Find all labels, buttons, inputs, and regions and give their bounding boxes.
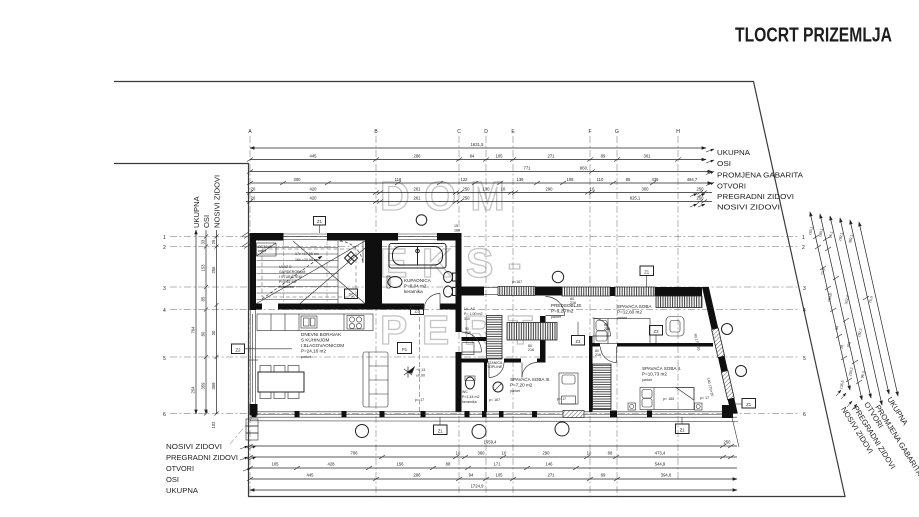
soba II bed [640,388,694,410]
rotated bottom labels of slanted band [839,395,919,478]
window: predsoblje hatched [498,287,535,296]
spavaca soba bed [594,319,650,344]
wall: WC / soba III divider [484,363,487,412]
dining table [258,372,304,392]
wall: top of WC / soba III [462,359,489,363]
soba III wardrobe [593,364,612,410]
svg-text:p= 165: p= 165 [663,397,674,401]
slanted dimension line PREGRADNI [820,214,862,400]
svg-text:105: 105 [272,462,280,467]
dimension row OTVORI (top) [247,177,712,185]
svg-text:NOSIVI ZIDOVI: NOSIVI ZIDOVI [166,442,222,451]
right axis number column 1-6 [802,235,806,418]
WC texts [462,390,479,404]
svg-text:250: 250 [724,440,732,445]
heating closet [487,316,503,360]
boxed label Z2 left [232,344,293,354]
svg-text:771: 771 [524,166,532,171]
svg-text:10: 10 [456,451,461,456]
svg-text:250: 250 [697,196,705,201]
svg-text:394,8: 394,8 [661,473,672,478]
svg-text:94: 94 [469,473,474,478]
entrance door dashed swing [340,241,363,263]
svg-text:Z2: Z2 [236,348,242,353]
bathtub [389,244,446,269]
svg-text:706: 706 [351,451,359,456]
svg-text:WC: WC [462,390,468,394]
svg-text:3: 3 [803,286,806,292]
svg-text:271: 271 [548,154,556,159]
soba II door arc [601,347,617,363]
svg-text:110: 110 [597,177,604,182]
svg-text:88: 88 [446,462,451,467]
svg-text:keramika: keramika [279,285,294,289]
svg-text:2: 2 [802,245,805,251]
soba II side sockets [628,403,702,410]
svg-text:SPAVAĆA SOBA III.: SPAVAĆA SOBA III. [510,376,551,382]
svg-text:171: 171 [494,462,502,467]
svg-text:D: D [484,129,488,135]
svg-text:Z1: Z1 [680,428,686,433]
tick marks on left lines [204,235,219,416]
svg-text:Z1: Z1 [644,270,650,275]
WC fixtures [466,377,475,389]
wall: exterior left (upper solid) [250,233,257,310]
frame border [114,82,845,497]
svg-text:6: 6 [803,412,806,418]
svg-text:PREGRADNI ZIDOVI: PREGRADNI ZIDOVI [717,192,794,201]
svg-text:P=9,20 m2: P=9,20 m2 [551,309,574,314]
svg-text:20: 20 [251,187,256,192]
small p= labels along bottom [415,280,709,402]
wall: top exterior (between windows) [327,233,398,241]
svg-text:TLOCRT PRIZEMLJA: TLOCRT PRIZEMLJA [735,24,892,47]
svg-text:310: 310 [464,317,470,321]
predsoblje wardrobe [507,323,557,341]
porch edge line [250,420,739,423]
axis horizontal dashed lines 1-6 [170,237,798,414]
wall: exterior left bottom corner [250,404,258,416]
svg-text:764: 764 [191,326,196,334]
svg-text:KUPAONICA: KUPAONICA [404,278,432,283]
svg-text:I STUBIŠTEM: I STUBIŠTEM [279,274,302,279]
svg-text:+0,13: +0,13 [416,368,425,372]
wall: segment to slant [655,287,702,296]
wall: predsoblje left vertical [540,316,546,362]
svg-text:216: 216 [595,353,601,357]
nightstand with lamp [666,317,684,337]
svg-text:216: 216 [570,301,576,305]
left vertical dimension lines [196,230,217,414]
svg-text:p=167: p=167 [512,280,522,284]
svg-text:286: 286 [414,154,422,159]
watermark DOM EKS-PERT [380,173,547,353]
svg-text:p= 17: p= 17 [415,398,424,402]
boxed label Z1 bottom right [676,417,690,433]
rotated numbers along slanted lines [808,226,874,390]
wall: bottom hatched section [563,411,584,418]
slanted dimension line OSI [850,220,889,394]
svg-text:825,1: 825,1 [630,196,641,201]
svg-text:445: 445 [307,473,315,478]
boxed label P1 [398,343,412,354]
svg-text:359: 359 [211,382,216,390]
svg-text:118: 118 [395,177,402,182]
svg-text:130: 130 [483,187,491,192]
svg-text:parket: parket [510,389,520,393]
dimension row PREGRADNI ZIDOVI (bottom) [247,451,737,460]
site circles right of slant wall [722,324,733,335]
svg-text:PREDSOBLJE: PREDSOBLJE [551,303,581,308]
svg-text:5: 5 [163,356,166,362]
svg-text:216: 216 [604,327,610,331]
svg-text:P=9,61 m2: P=9,61 m2 [279,280,296,284]
svg-text:1: 1 [163,235,166,241]
svg-text:301: 301 [644,154,652,159]
rotated numbers on left lines [191,239,217,428]
svg-text:P=12,60 m2: P=12,60 m2 [617,310,642,315]
bottom-left row labels [166,442,238,495]
svg-text:5: 5 [803,356,806,362]
soba III door arc [522,363,537,378]
wall: top exterior right corner of bath block [437,233,462,241]
svg-text:10: 10 [590,187,595,192]
window: small thin section [484,288,498,295]
svg-text:parket: parket [301,355,311,359]
svg-text:Z3: Z3 [654,329,660,334]
svg-text:860,: 860, [580,166,588,171]
svg-text:85: 85 [626,177,631,182]
svg-text:P=8,04 m2: P=8,04 m2 [404,284,427,289]
svg-text:UKUPNA: UKUPNA [166,486,199,495]
stairs: step lines [257,241,339,304]
wall: bathroom right / hall vertical [456,241,462,304]
chairs bottom row [260,392,299,399]
svg-text:NOSIVI ZIDOVI: NOSIVI ZIDOVI [717,203,780,212]
bathroom texts [404,278,432,294]
svg-text:TOPLINE: TOPLINE [487,365,503,369]
svg-text:136: 136 [517,177,525,182]
dashed gabarit line living room [419,310,421,412]
dimension row NOSIVI ZIDOVI (bottom) [247,440,737,449]
svg-text:216: 216 [465,331,471,335]
boxed label Z1 right upper [640,266,654,287]
wall: soba vertical (predsoblje/spavaca) [589,336,593,412]
spavaca soba wardrobe [656,296,702,308]
svg-text:DNEVNI BORAVAK: DNEVNI BORAVAK [301,332,342,337]
svg-text:216: 216 [528,348,534,352]
tiny dim marks near C axis [454,224,460,233]
svg-text:P1: P1 [402,347,408,352]
svg-text:102: 102 [211,421,216,429]
svg-text:4: 4 [163,308,166,314]
svg-text:GARDEROBOM: GARDEROBOM [279,270,305,274]
svg-text:146: 146 [546,462,554,467]
steps at bottom-left [246,419,258,440]
svg-text:360: 360 [478,451,486,456]
wall: niche top (UL.AZ) [462,337,489,341]
spavaca soba texts [617,303,652,320]
svg-text:108: 108 [567,177,575,182]
level marker star [404,367,414,378]
boxed label Z1 bottom middle [434,417,448,434]
svg-text:keramika: keramika [404,289,423,294]
slant extension to dimension rows [731,414,739,448]
slanted dimension line PROMJENA [840,218,882,405]
svg-text:180: 180 [454,229,460,233]
window: bathroom top [398,234,437,240]
svg-text:1724,9: 1724,9 [471,484,484,489]
svg-text:F: F [588,129,591,135]
svg-text:SPAVAĆA SOBA II.: SPAVAĆA SOBA II. [642,365,681,371]
svg-text:3: 3 [163,286,166,292]
axis letters A-H [248,129,680,135]
boxed label Z1 far right [734,399,756,409]
svg-text:105: 105 [496,473,504,478]
svg-text:G: G [615,129,619,135]
slanted dimension line UKUPNA [859,222,898,396]
stairs: diagonal cross [257,241,366,304]
svg-text:P5: P5 [348,293,354,298]
svg-text:ULAZ S: ULAZ S [279,265,292,269]
svg-text:359: 359 [201,382,206,390]
hob circles [347,316,364,330]
tick marks on slanted lines [813,235,869,384]
svg-text:250: 250 [463,196,471,201]
svg-text:I BLAGOVAONICOM: I BLAGOVAONICOM [301,343,344,348]
svg-text:16š ×30,00 cm: 16š ×30,00 cm [295,258,319,262]
svg-text:Z1: Z1 [746,402,752,407]
svg-text:420: 420 [310,196,318,201]
small tick cluster left of plan top [242,233,250,249]
axis numbers 1-6 [163,235,166,418]
svg-text:p= 17: p= 17 [700,396,709,400]
svg-text:SPAVAĆA SOBA: SPAVAĆA SOBA [617,303,652,309]
svg-text:254: 254 [191,386,196,394]
svg-text:271: 271 [548,473,556,478]
dimension row NOSIVI ZIDOVI (top) [246,196,712,204]
wall: bottom glazed front (thin rails) [250,412,738,417]
svg-text:torbe: torbe [258,249,266,253]
niche shelf hall [462,343,474,355]
svg-text:OSI: OSI [166,475,179,484]
svg-text:290: 290 [546,187,554,192]
wall: soba / soba II divider horizontal [593,343,601,347]
svg-text:156: 156 [397,462,405,467]
boxed label Z3 bathroom [411,306,424,315]
svg-text:P=1,44 m2: P=1,44 m2 [462,395,479,399]
living to hall door [462,332,482,352]
svg-text:286: 286 [414,473,422,478]
svg-text:436: 436 [652,177,660,182]
svg-text:85: 85 [201,296,206,301]
svg-text:1: 1 [802,235,805,241]
stairs: dashed walk line with arrow [262,256,322,299]
svg-text:105: 105 [496,154,504,159]
svg-text:4: 4 [803,308,806,314]
svg-text:2: 2 [163,245,166,251]
stairs: dashed inner rect [262,249,356,297]
svg-text:PREGRADNI ZIDOVI: PREGRADNI ZIDOVI [166,453,238,462]
boxed label Z3 soba [650,326,663,344]
soba III texts [510,376,551,393]
boxed label Z3 predsoblje [572,322,585,345]
svg-text:122: 122 [461,177,469,182]
wall: block bottom horizontal [250,304,263,310]
svg-text:256: 256 [211,266,216,274]
svg-text:1631,5: 1631,5 [471,142,484,147]
svg-text:UL. AZ: UL. AZ [464,307,476,311]
storage box OSTAVA [257,243,277,256]
boxed label P5 [345,289,358,299]
living room texts [301,332,344,359]
svg-text:10: 10 [501,187,506,192]
window: spavaca soba long hatched [562,287,610,296]
svg-text:P=7,20 m2: P=7,20 m2 [510,383,533,388]
rotated labels over left lines [192,175,222,228]
svg-text:UKUPNA: UKUPNA [192,195,201,228]
svg-text:Z1: Z1 [438,429,444,434]
dimension row UKUPNA (bottom) [250,484,737,491]
svg-text:OTVORI: OTVORI [166,464,194,473]
right-side row labels [717,148,804,212]
dashed path bottom-left [230,418,252,444]
svg-text:290: 290 [543,451,551,456]
svg-text:420: 420 [310,187,318,192]
wall: bottom posts [252,411,653,418]
svg-text:89: 89 [601,473,606,478]
dimension row UKUPNA (top) [250,142,706,148]
svg-text:10: 10 [587,451,592,456]
wall: top exterior right wing [462,287,485,296]
svg-text:10: 10 [502,451,507,456]
svg-text:parket: parket [551,315,561,319]
predsoblje texts [551,303,581,319]
svg-text:S KUHINJOM: S KUHINJOM [301,338,330,343]
wall: slanted east wall [702,287,718,330]
window: left wall glazing band [248,310,258,406]
washbasin bathroom [388,277,402,288]
sofa [363,352,388,407]
svg-text:80: 80 [201,331,206,336]
porch column circles [356,425,369,438]
arrows after bottom-left labels [240,446,256,471]
svg-text:Z1: Z1 [317,219,323,224]
window: stair room top [283,234,327,240]
svg-text:p= 17: p= 17 [557,397,566,401]
small door dimension labels [465,297,610,357]
svg-text:UKUPNA: UKUPNA [717,148,751,157]
dimension row PREGRADNI ZIDOVI (top) [246,187,712,195]
svg-text:30: 30 [211,330,216,335]
svg-text:153: 153 [201,264,206,272]
svg-text:250: 250 [697,187,705,192]
svg-text:445: 445 [310,154,318,159]
wall: bottom-right corner block [722,405,733,418]
chairs top row [260,366,299,373]
svg-text:parket: parket [642,378,652,382]
dimension row OSI (top) [247,154,706,162]
predsoblje door arc [546,297,565,316]
svg-text:C: C [457,129,461,135]
svg-text:544,9: 544,9 [655,462,666,467]
svg-text:OSI: OSI [202,215,211,228]
svg-text:±0,00: ±0,00 [416,374,425,378]
svg-text:P= 1,00 m2: P= 1,00 m2 [464,312,482,316]
svg-text:1659,4: 1659,4 [484,440,497,445]
svg-text:250: 250 [463,187,471,192]
svg-text:P=10,73 m2: P=10,73 m2 [642,372,667,377]
wall: stair/bath divider [365,241,382,304]
svg-text:NOSIVI ZIDOVI: NOSIVI ZIDOVI [213,175,222,228]
svg-text:300: 300 [294,177,302,182]
axis vertical dashed lines A-H [250,136,678,500]
soba II texts [642,365,681,382]
svg-text:6: 6 [163,412,166,418]
svg-text:17v ×17,65 cm: 17v ×17,65 cm [295,252,319,256]
svg-text:33: 33 [201,239,206,244]
svg-text:20: 20 [251,196,256,201]
wc and bidet [444,272,457,298]
svg-text:484,7: 484,7 [687,177,698,182]
WC door arc [489,363,504,378]
svg-text:P=24,16 m2: P=24,16 m2 [301,349,326,354]
svg-text:OSI: OSI [717,159,731,168]
column circle top A [416,215,427,226]
svg-text:PROMJENA GABARITA: PROMJENA GABARITA [717,171,804,180]
svg-text:300: 300 [642,187,650,192]
slanted dimension line OTVORI [830,216,871,398]
boxed label Z1 top [314,217,326,234]
bathroom door arc [424,294,440,310]
svg-text:428: 428 [328,462,336,467]
wall: segment [535,287,562,296]
svg-text:OTVORI: OTVORI [717,182,746,191]
svg-text:Z3: Z3 [576,339,582,344]
arrows before right labels [690,149,714,207]
window extension dashed lines stair room [284,241,328,304]
svg-text:25: 25 [211,239,216,244]
svg-text:88: 88 [608,451,613,456]
dimension row OSI (bottom) [247,473,737,482]
svg-text:15: 15 [454,224,458,228]
spavaca soba door arc [593,318,611,336]
svg-text:261: 261 [414,187,422,192]
svg-text:keramika: keramika [462,400,477,404]
svg-text:Z3: Z3 [415,309,421,314]
svg-text:84: 84 [470,154,475,159]
dimension row PROMJENA GABARITA (top) [247,166,712,174]
svg-text:parket: parket [617,316,627,320]
soba III bed [559,373,578,404]
wall: top exterior (stair block) [250,233,284,241]
svg-text:H: H [676,129,680,135]
shaft: rotated square [345,252,358,265]
column circle predsoblje top [552,271,563,282]
double arrow cluster bottom of slanted band [836,390,857,410]
dimension row OTVORI (bottom) [247,462,737,471]
svg-text:p= 167: p= 167 [489,398,500,402]
kitchen counter [257,314,373,331]
svg-text:89: 89 [601,154,606,159]
slanted dimension line NOSIVI [810,212,850,390]
svg-text:473,4: 473,4 [655,451,666,456]
svg-text:261: 261 [414,196,422,201]
